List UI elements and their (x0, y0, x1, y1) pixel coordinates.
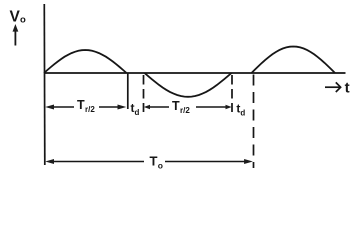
svg-text:o: o (158, 161, 163, 171)
svg-text:o: o (20, 15, 26, 26)
svg-text:r/2: r/2 (85, 105, 95, 114)
svg-text:T: T (77, 98, 85, 112)
svg-text:d: d (240, 109, 245, 118)
svg-text:T: T (150, 154, 158, 169)
svg-text:t: t (345, 79, 350, 96)
svg-text:V: V (10, 9, 21, 26)
svg-text:d: d (135, 108, 140, 117)
svg-text:r/2: r/2 (180, 106, 190, 115)
svg-text:T: T (172, 99, 180, 113)
